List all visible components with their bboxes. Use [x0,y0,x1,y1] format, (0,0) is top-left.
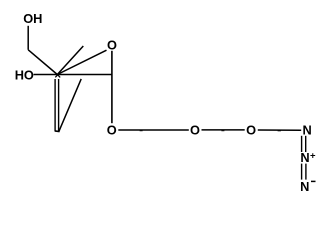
wire O3-N [258,129,301,131]
svg-text:N: N [300,179,309,194]
double bond N1=N2 left line [301,136,303,152]
double bond C=C left line [54,79,56,131]
wire methyl stub [57,46,83,75]
node central C vertex serif [55,75,60,78]
wire CH2-C diagonal [28,50,57,75]
double bond N2=N3 left line [301,164,303,180]
node CH2 vertex tick on O3-N wire [278,130,281,132]
svg-text:N: N [302,122,311,137]
wire C-O epoxide diagonal [57,50,106,74]
wire HO-C-C horizontal [34,74,112,76]
wire epoxide O down to chain O [111,51,113,123]
svg-text:O: O [246,123,256,138]
wire O1-O2 [118,129,189,131]
node bottom vertex serif [55,130,60,133]
wire O-CH2 stem [27,26,29,50]
charge minus on N3 [311,180,316,182]
double bond N1=N2 right line [305,136,307,152]
node CH2 vertex tick on O1-O2 wire [140,130,143,132]
svg-text:N: N [300,150,309,165]
svg-text:O: O [107,123,117,138]
wire ring diagonal [59,79,81,131]
svg-text:+: + [310,150,316,161]
wire O2-O3 [202,129,245,131]
double bond N2=N3 right line [305,164,307,180]
svg-text:O: O [190,123,200,138]
node CH2 vertex tick on O2-O3 wire [221,130,224,132]
svg-text:O: O [107,38,117,53]
double bond C=C right line [58,79,60,131]
svg-text:HO: HO [15,68,34,83]
svg-text:OH: OH [23,11,42,26]
